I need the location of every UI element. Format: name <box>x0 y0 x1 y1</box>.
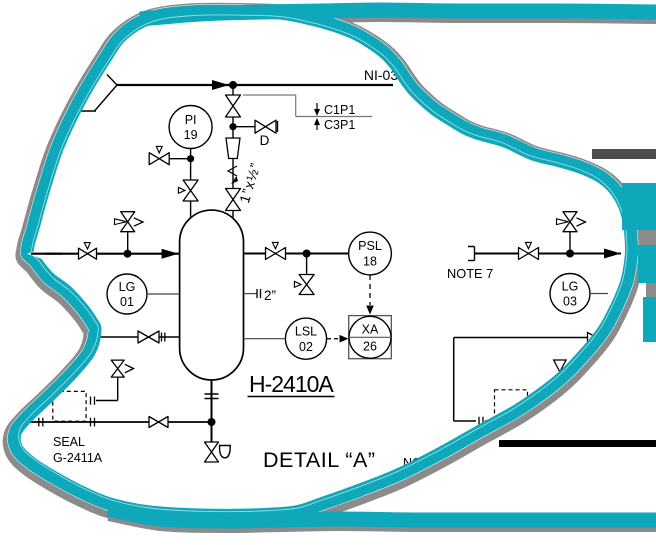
svg-text:G-2411A: G-2411A <box>53 451 103 465</box>
svg-text:01: 01 <box>120 295 134 309</box>
svg-text:LG: LG <box>119 280 136 294</box>
svg-text:LSL: LSL <box>295 325 317 339</box>
svg-text:XA: XA <box>362 323 379 337</box>
svg-text:19: 19 <box>184 128 198 142</box>
svg-text:26: 26 <box>363 340 377 354</box>
svg-text:18: 18 <box>363 255 377 269</box>
svg-text:2”: 2” <box>264 288 276 303</box>
svg-text:PI: PI <box>185 113 197 127</box>
svg-text:C3P1: C3P1 <box>324 118 355 132</box>
svg-text:SEAL: SEAL <box>53 435 85 449</box>
svg-text:D: D <box>260 133 270 148</box>
svg-text:C1P1: C1P1 <box>324 103 355 117</box>
svg-text:H-2410A: H-2410A <box>249 371 334 397</box>
svg-text:NOTE 7: NOTE 7 <box>447 266 493 281</box>
svg-text:PSL: PSL <box>358 239 382 253</box>
svg-text:02: 02 <box>299 340 313 354</box>
svg-text:DETAIL “A”: DETAIL “A” <box>263 448 376 472</box>
svg-text:LG: LG <box>562 280 579 294</box>
svg-text:03: 03 <box>563 295 577 309</box>
